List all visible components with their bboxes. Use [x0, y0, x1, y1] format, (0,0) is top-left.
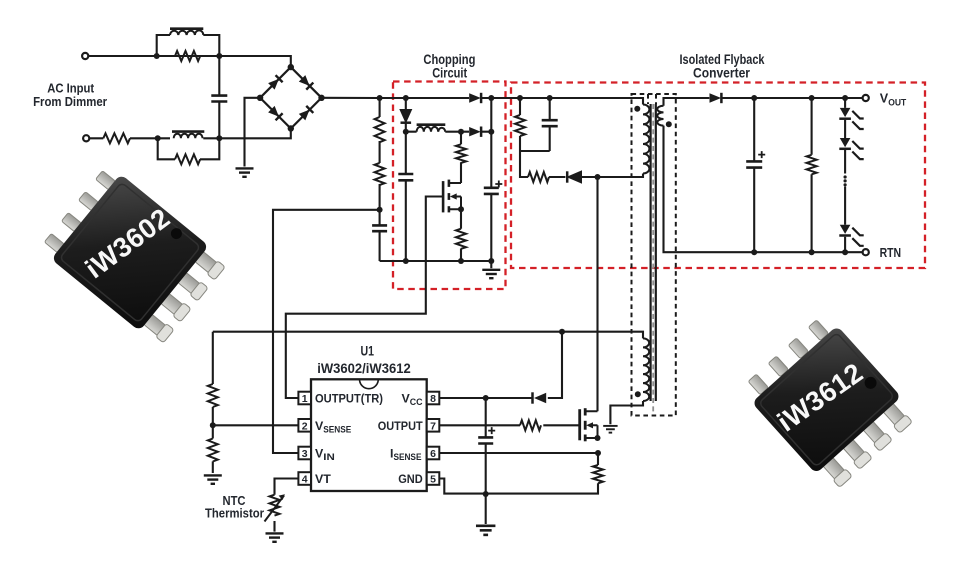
junction: power MOSFET source stub — [595, 435, 601, 441]
IC package photo U3 iW3612 — [740, 312, 919, 493]
svg-text:From Dimmer: From Dimmer — [33, 94, 107, 109]
svg-text:iW3602/iW3612: iW3602/iW3612 — [317, 360, 411, 376]
svg-text:RTN: RTN — [880, 246, 902, 260]
bridge rectifier BR1 — [260, 67, 321, 128]
capacitor: snubber C — [542, 120, 558, 126]
U1 pin 3 box — [298, 447, 311, 460]
junction: bridge top corner — [288, 64, 294, 70]
svg-text:OUTPUT: OUTPUT — [378, 419, 423, 433]
resistor: input divider lower R — [375, 163, 385, 185]
svg-text:7: 7 — [430, 420, 436, 432]
U1 pin 7 box — [427, 419, 440, 432]
transformer core lines — [651, 104, 656, 401]
svg-text:6: 6 — [430, 448, 436, 460]
U1 pin 8 box — [427, 392, 440, 405]
transformer core center dashed gray line — [652, 104, 654, 414]
ground: aux winding — [603, 426, 617, 433]
wire: snubber resistor branch — [520, 98, 550, 177]
capacitor: chopper left cap — [398, 174, 413, 180]
resistor: bottom EMI damping R — [175, 154, 200, 164]
resistor: input divider upper R — [375, 117, 385, 142]
junction: chopper diode out node — [488, 129, 494, 135]
junction: chopper rail source R — [458, 258, 464, 264]
resistor: AC bottom line series R — [103, 133, 130, 143]
junction: bridge bottom corner — [288, 125, 294, 131]
capacitor: output electrolytic — [746, 161, 762, 167]
svg-text:3: 3 — [302, 448, 308, 460]
wire: output rail after diode to VOUT terminal — [722, 97, 863, 99]
transformer T1 black dashed box — [632, 94, 676, 416]
svg-text:VT: VT — [315, 472, 331, 486]
wire: X-capacitor vertical link — [218, 56, 220, 138]
junction: chopper output top — [488, 95, 494, 101]
svg-text:4: 4 — [302, 474, 308, 486]
wire: AC bottom line terminal to bridge bottom corner — [89, 129, 291, 139]
junction: ISENSE node — [595, 450, 601, 456]
chopping circuit red dashed box — [393, 82, 506, 290]
junction: chopper rail ground — [488, 258, 494, 264]
svg-text:1: 1 — [302, 393, 308, 405]
wire: output load resistor vertical — [811, 98, 813, 252]
transformer primary winding — [643, 105, 649, 174]
resistor: output load R — [807, 155, 817, 175]
junction: bridge right corner — [318, 95, 324, 101]
wire: aux winding bottom to ground — [610, 401, 643, 424]
wire: pin 6 ISENSE to MOSFET source node — [439, 452, 598, 454]
junction: top EMI branch left — [154, 53, 160, 59]
junction: output rail load R — [809, 95, 815, 101]
junction: bottom EMI branch left — [155, 135, 161, 141]
transformer auxiliary dot — [635, 391, 641, 397]
bridge diode D2 (top to right) — [299, 75, 314, 90]
wire: VCC capacitor vertical to ground — [485, 398, 487, 524]
LED D6 — [839, 138, 863, 159]
LED D5 — [839, 108, 863, 129]
junction: bottom EMI branch right — [216, 135, 222, 141]
terminal: AC input top — [82, 53, 88, 59]
junction: snubber C top — [547, 95, 553, 101]
svg-text:8: 8 — [430, 393, 436, 405]
svg-text:OUTPUT(TR): OUTPUT(TR) — [315, 392, 383, 406]
ground: thermistor — [266, 533, 284, 541]
wire: primary bottom to power MOSFET drain — [596, 177, 598, 411]
capacitor: X cap across AC lines — [211, 96, 227, 102]
junction: aux line VCC tap — [559, 329, 565, 335]
wire: chopper input diode branch vertical — [405, 98, 407, 132]
ground: main GND node — [476, 526, 495, 535]
junction: VSENSE divider tap — [210, 422, 216, 428]
U1 pin 4 box — [298, 472, 311, 485]
junction: return rail load R — [809, 249, 815, 255]
wire: VCC branch from aux line through diode to pin 8 — [439, 332, 562, 398]
svg-text:Thermistor: Thermistor — [205, 505, 264, 520]
wire: bridge minus corner to ground — [245, 98, 261, 167]
inductor: chopper choke — [417, 127, 446, 132]
transistor Q1 chopper MOSFET — [443, 180, 461, 213]
svg-text:2: 2 — [302, 420, 308, 432]
wire: chopper drain resistor link — [460, 132, 462, 183]
resistor: ISENSE shunt R — [593, 465, 603, 483]
wire: chopper output vertical with electrolytic cap — [490, 98, 492, 261]
inductor: top EMI choke — [170, 30, 203, 35]
wire: LED string vertical segments — [844, 98, 846, 252]
transformer auxiliary winding — [643, 338, 649, 401]
wire: rail from snubber to primary top — [550, 98, 643, 105]
diode: chopper branch diode (downward) — [401, 110, 411, 121]
wire: thermistor branch from pin 4 — [275, 479, 299, 532]
terminal: VOUT — [863, 95, 869, 101]
wire: pin 7 OUTPUT to gate resistor to power MOSFET gate — [439, 424, 579, 426]
junction: snubber R top — [517, 95, 523, 101]
wire: snubber capacitor branch — [549, 98, 551, 151]
bridge diode D4 (bottom to right) — [299, 106, 314, 121]
wire: bottom EMI parallel branch rectangle — [158, 138, 220, 159]
wire: chopper inductor node links — [406, 131, 492, 133]
wire: output electrolytic cap vertical — [753, 98, 755, 252]
capacitor: chopper electrolytic + — [484, 188, 499, 194]
wire: rectified rail across chopping box — [406, 97, 550, 99]
wire: VIN divider chain verticals — [379, 98, 381, 261]
junction: output rail LED — [842, 95, 848, 101]
transistor Q2 power MOSFET — [580, 408, 598, 441]
resistor: chopper source R — [456, 229, 466, 249]
LED D7 — [839, 225, 863, 246]
LED string continuation dots — [844, 175, 847, 186]
svg-text:Circuit: Circuit — [432, 65, 467, 80]
junction: chopper inductor left node — [403, 129, 409, 135]
resistor: snubber parallel R — [515, 115, 525, 136]
IC package photo U2 iW3602 — [39, 164, 229, 348]
resistor: top EMI damping R — [175, 51, 200, 61]
capacitor: VIN filter cap — [372, 225, 387, 231]
diode: VCC charge diode (pointing left) — [534, 393, 546, 403]
ground: VSENSE divider — [204, 475, 222, 483]
inductor core bar: top EMI choke — [170, 27, 203, 30]
isolated flyback converter red dashed box — [511, 83, 925, 269]
junction: VCC node at pin 8 — [483, 395, 489, 401]
junction: GND wire at VCC cap — [483, 491, 489, 497]
U1 pin 2 box — [298, 419, 311, 432]
junction: chopper source stub — [458, 206, 464, 212]
diode: output rectifier — [710, 93, 722, 103]
wire: VIN sense line to pin 3 — [273, 210, 380, 453]
inductor core bar: bottom EMI choke — [172, 130, 204, 133]
junction: VIN divider mid — [377, 207, 383, 213]
ground: chopping bottom rail — [490, 261, 492, 268]
svg-text:GND: GND — [398, 472, 423, 486]
wire: VSENSE tap to pin 2 — [213, 424, 299, 426]
diode: snubber diode (pointing left) — [569, 172, 581, 182]
resistor: chopper drain R — [456, 144, 466, 163]
transformer secondary dot — [666, 121, 672, 127]
junction: return rail cap — [751, 249, 757, 255]
wire: aux winding to VSENSE line — [213, 332, 643, 339]
wire: chopper source resistor link — [460, 209, 462, 261]
diode: chopper choke diode — [469, 127, 481, 137]
wire: secondary bottom return rail to RTN terminal — [664, 126, 863, 253]
terminal: AC input bottom — [83, 135, 89, 141]
thermistor RT1 NTC — [265, 495, 285, 522]
junction: top EMI branch right — [216, 53, 222, 59]
wire: chopper gate line to U1 pin 1 — [286, 197, 443, 399]
diode: chopper top bypass diode — [469, 93, 481, 103]
U1 pin 1 box — [298, 392, 311, 405]
resistor: snubber series R — [528, 172, 549, 182]
svg-text:Converter: Converter — [693, 65, 751, 80]
junction: chopper diode branch top — [403, 95, 409, 101]
junction: chopper inductor right node — [458, 129, 464, 135]
U1 pin 5 box — [427, 472, 440, 485]
capacitor: VCC electrolytic — [478, 437, 493, 443]
resistor: VSENSE divider upper R — [208, 384, 218, 407]
transformer primary dot — [634, 106, 640, 112]
bridge diode D1 (left to top) — [268, 75, 283, 90]
wire: VSENSE divider chain — [212, 332, 214, 473]
transformer secondary winding — [657, 106, 663, 126]
inductor: bottom EMI choke — [174, 134, 203, 139]
wire: bridge plus corner to chopping input rail — [322, 97, 406, 99]
junction: return rail LED — [842, 249, 848, 255]
junction: input divider top — [377, 95, 383, 101]
wire: secondary top to output diode — [664, 98, 710, 106]
wire: snubber series resistor to diode to primary bottom — [549, 174, 643, 178]
wire: ISENSE resistor to GND wire — [439, 453, 598, 494]
junction: chopper rail left cap — [403, 258, 409, 264]
junction: snubber diode to drain line — [595, 174, 601, 180]
wire: AC top line from terminal to bridge top corner — [88, 56, 291, 67]
op-amp/controller U1 body — [311, 379, 427, 491]
ground below bridge — [236, 168, 254, 176]
bridge diode D3 (left to bottom) — [268, 106, 283, 121]
terminal: RTN — [863, 249, 869, 255]
svg-text:5: 5 — [430, 474, 436, 486]
junction: bridge left corner — [257, 95, 263, 101]
wire: chopping bottom rail — [380, 260, 492, 262]
resistor: gate drive R (pin 7) — [520, 420, 541, 430]
wire: chopper left capacitor vertical — [405, 132, 407, 261]
inductor core bar: chopper choke — [417, 123, 446, 126]
junction: output rail cap — [751, 95, 757, 101]
U1 pin 6 box — [427, 447, 440, 460]
wire: top EMI parallel branch rectangle — [157, 35, 220, 56]
svg-text:U1: U1 — [361, 343, 375, 359]
resistor: VSENSE divider lower R — [208, 439, 218, 462]
